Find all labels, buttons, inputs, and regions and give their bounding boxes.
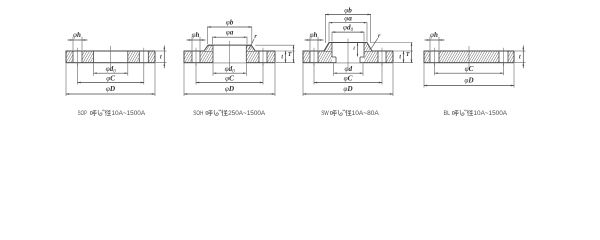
svg-text:SOP: SOP (78, 110, 87, 117)
hatched section SOH (184, 45, 275, 63)
bolt hole right (SOP) (139, 48, 148, 66)
dimension φd (SW) (334, 63, 364, 75)
centre line (SOP) (110, 46, 112, 68)
svg-text:BL: BL (444, 110, 451, 117)
dimension φC (SOH) (196, 63, 263, 84)
dimension φh bolt hole (SW) (305, 31, 324, 50)
flange plate outline (SOP) (66, 51, 155, 63)
hatched section SW (303, 43, 393, 63)
caption BL (444, 110, 508, 117)
dimension φd0 (SOH) (213, 63, 246, 75)
caption SOP (78, 110, 146, 117)
flange plate outline (SW) (303, 51, 393, 63)
svg-text:φa: φa (344, 14, 352, 22)
centre line (SW) (347, 39, 349, 69)
dimension φa hub top (SOH) (213, 29, 248, 45)
svg-text:φD: φD (343, 85, 353, 93)
svg-text:10A~80A: 10A~80A (352, 110, 380, 117)
svg-text:T: T (288, 52, 292, 58)
dimension t thickness (SOP) (156, 46, 167, 69)
svg-text:φh: φh (73, 31, 81, 39)
svg-text:φD: φD (225, 85, 235, 93)
dimension φb hub base (SW) (325, 6, 370, 43)
dimension φh bolt hole (SOP) (68, 31, 88, 50)
svg-text:φa: φa (226, 29, 234, 37)
hub-top extension line for T (SOH) (255, 44, 294, 46)
svg-text:φC: φC (106, 74, 115, 82)
svg-text:φC: φC (225, 74, 234, 82)
dimension φC (BL) (435, 63, 504, 75)
fillet radius leader r (SW) (371, 34, 381, 49)
dimension t thickness (BL) (515, 46, 526, 69)
dimension φC (SOP) (78, 63, 144, 84)
hatched section SOP (66, 51, 155, 63)
svg-text:SW: SW (321, 110, 329, 117)
bore SOH (208, 45, 251, 63)
hatched section BL (424, 51, 514, 63)
dimension φD (SOP) (66, 63, 155, 96)
socket bore SW (329, 43, 367, 63)
svg-text:10A~1500A: 10A~1500A (474, 110, 508, 117)
bolt hole right (BL) (499, 48, 508, 66)
svg-text:10A~1500A: 10A~1500A (112, 110, 146, 117)
svg-text:φb: φb (344, 6, 352, 14)
svg-text:φh: φh (192, 31, 200, 39)
caption SW (321, 110, 379, 117)
bolt hole right (SW) (378, 48, 386, 66)
dimension φD (SOH) (184, 63, 275, 96)
dimension φh bolt hole (BL) (425, 31, 445, 50)
dimension φD (BL) (424, 63, 514, 87)
svg-text:φD: φD (464, 76, 474, 84)
dimension φC (SW) (314, 63, 382, 84)
dimension φb hub base (SOH) (208, 19, 252, 45)
svg-text:φD: φD (106, 85, 116, 93)
hub-top extension line for T (SW) (371, 42, 413, 44)
dimension φd0 (SOP) (94, 63, 128, 75)
dimension φa hub top (SW) (329, 14, 367, 41)
dimension t and T thickness (SW) (394, 43, 413, 63)
socket depth dimension (SW) (353, 43, 358, 57)
hub SOH (204, 45, 255, 51)
hub SW (324, 43, 372, 52)
svg-text:φC: φC (465, 65, 474, 73)
svg-text:250A~1500A: 250A~1500A (228, 110, 266, 117)
caption SOH (193, 110, 266, 117)
svg-text:φh: φh (310, 31, 318, 39)
flange plate outline (BL) (424, 51, 514, 63)
bore SOP (94, 51, 128, 63)
centre line (BL) (468, 46, 470, 68)
centre line (SOH) (229, 41, 231, 68)
dimension φd2 socket bore (SW) (332, 24, 364, 42)
flange plate outline (SOH) (184, 51, 275, 63)
svg-text:φb: φb (226, 19, 234, 27)
dimension t and T thickness (SOH) (276, 45, 295, 63)
fillet radius leader r (SOH) (249, 34, 258, 49)
bolt hole right (SOH) (259, 48, 267, 66)
bolt hole left (BL) (430, 48, 439, 66)
bolt hole left (SOP) (73, 48, 82, 66)
svg-text:φd: φd (344, 65, 352, 73)
svg-text:SOH: SOH (193, 110, 203, 117)
svg-text:φC: φC (344, 74, 353, 82)
dimension φh bolt hole (SOH) (187, 31, 206, 50)
svg-text:T: T (406, 52, 410, 58)
svg-text:φh: φh (430, 31, 438, 39)
dimension φD (SW) (303, 63, 393, 96)
bolt hole left (SW) (310, 48, 318, 66)
bolt hole left (SOH) (192, 48, 200, 66)
